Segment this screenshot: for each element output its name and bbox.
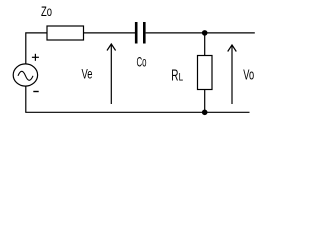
wire RL to bottom rail (204, 90, 206, 113)
wire resistor to capacitor (84, 32, 136, 34)
node bottom junction dot (202, 110, 208, 116)
resistor Zo (47, 26, 84, 40)
AC source V1 circle (13, 64, 37, 86)
AC source sine wave (18, 71, 33, 80)
plus polarity mark (32, 56, 39, 58)
svg-text:L: L (179, 71, 184, 83)
svg-text:Zo: Zo (41, 3, 52, 19)
svg-text:Co: Co (137, 53, 147, 69)
capacitor C0 plates (135, 22, 138, 44)
wire capacitor to right end (146, 32, 255, 34)
arrow Vo (231, 45, 233, 104)
svg-text:Vo: Vo (243, 68, 254, 84)
resistor RL (198, 56, 213, 90)
arrow Ve (110, 45, 112, 105)
minus polarity mark (33, 91, 38, 93)
node top junction dot (202, 30, 208, 36)
svg-text:R: R (171, 67, 178, 84)
wire top-left from source to resistor (26, 33, 47, 64)
wire source bottom to rail (25, 86, 27, 112)
wire node to RL (204, 33, 206, 56)
bottom rail wire (25, 111, 249, 113)
svg-text:Ve: Ve (82, 65, 93, 81)
